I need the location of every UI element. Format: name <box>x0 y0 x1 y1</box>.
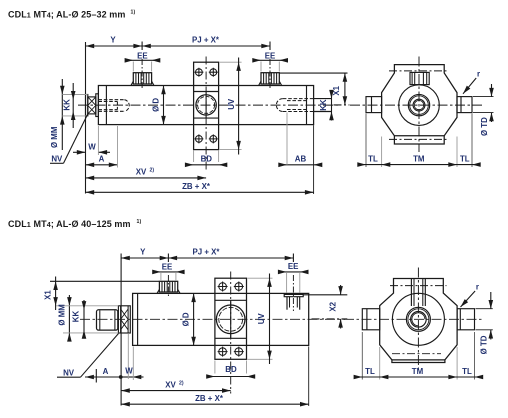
dimension EE (rod-side port) <box>125 52 161 72</box>
port 1 centerline (bottom) <box>167 275 169 298</box>
dimension EE (rear port) <box>252 52 288 72</box>
trunnion block MT4 (side view) <box>194 62 219 149</box>
svg-text:TM: TM <box>413 155 425 164</box>
svg-text:Ø MM: Ø MM <box>58 304 67 326</box>
cylinder centerline (side view top) <box>78 104 338 106</box>
dimension X1 (port top to centerline) <box>279 73 349 105</box>
svg-text:CDL1 MT4; AL-Ø 25–32 mm: CDL1 MT4; AL-Ø 25–32 mm <box>8 10 126 20</box>
dimension EE (bottom rear port) <box>278 262 309 293</box>
dimension KK (rear rod thread) <box>319 90 334 121</box>
end view horizontal centerline <box>350 104 482 106</box>
svg-text:ZB + X*: ZB + X* <box>182 182 211 191</box>
svg-text:EE: EE <box>288 262 299 271</box>
wrench flats NV (bottom, hatched) <box>118 306 130 333</box>
dimension O D (bottom) <box>181 293 196 345</box>
svg-text:XV: XV <box>165 380 176 389</box>
junction dot A/W <box>119 375 123 379</box>
trunnion pin right (bottom) <box>457 309 474 330</box>
svg-text:1): 1) <box>131 10 136 16</box>
port EE (rod side, bottom drawing) <box>157 281 180 293</box>
trunnion vertical centerline <box>205 57 207 172</box>
dimensions TL TM TL (bottom view) <box>354 332 484 380</box>
svg-text:1): 1) <box>137 219 142 225</box>
dimension KK (rod thread, left) <box>63 83 76 128</box>
svg-text:Ø D: Ø D <box>181 312 190 326</box>
tie rod centerlines (end view) <box>389 71 449 139</box>
port 2 centerline <box>269 59 271 89</box>
svg-text:Ø D: Ø D <box>152 98 161 112</box>
dimension BD (bottom) <box>206 361 255 379</box>
dimension ZB + X* (bottom) <box>121 347 309 407</box>
svg-text:Ø TD: Ø TD <box>479 335 488 354</box>
dimension X2 (bottom right) <box>303 285 347 329</box>
svg-text:ZB + X*: ZB + X* <box>195 394 224 403</box>
svg-text:A: A <box>103 367 109 376</box>
svg-text:r: r <box>477 70 480 79</box>
svg-text:TL: TL <box>365 367 375 376</box>
dimension O D (bore) <box>152 86 166 125</box>
piston rod head with thread KK (bottom) <box>97 310 118 330</box>
end view vertical centerline (bottom) <box>417 268 419 373</box>
svg-text:PJ + X*: PJ + X* <box>193 248 221 257</box>
svg-text:NV: NV <box>63 368 75 377</box>
bore circles (bottom end view) <box>392 293 444 345</box>
dimension BD <box>185 151 227 168</box>
label NV with leader <box>50 114 88 164</box>
port EE rear (bottom drawing, counterbore in cap) <box>284 293 303 309</box>
port EE (rod side), threaded boss <box>131 73 154 86</box>
dimension W (bottom) <box>121 334 144 380</box>
svg-text:TL: TL <box>460 155 470 164</box>
trunnion pin left (bottom) <box>362 309 379 330</box>
trunnion pin right <box>457 97 472 113</box>
port (bottom end view) <box>411 279 425 307</box>
bore circles (end view) <box>399 85 440 126</box>
cylinder centerline (side view bottom) <box>80 318 345 320</box>
rear rod stub (right end) <box>314 99 332 112</box>
svg-text:r: r <box>476 283 479 292</box>
svg-text:2): 2) <box>150 168 155 174</box>
label r with leader (bottom) <box>459 283 479 309</box>
cylinder body outline (bottom) <box>133 293 309 345</box>
dimension O MM (rod diameter) <box>50 79 87 150</box>
svg-text:UV: UV <box>257 313 266 325</box>
svg-text:KK: KK <box>72 311 81 323</box>
svg-text:BD: BD <box>201 154 213 163</box>
tie rod nuts (bottom, 4 crossed circles) <box>218 282 244 357</box>
trunnion vertical centerline (bottom) <box>230 272 232 394</box>
svg-text:EE: EE <box>137 52 148 61</box>
svg-text:Ø MM: Ø MM <box>50 126 59 148</box>
dimension PJ + X* <box>142 36 270 50</box>
dimensions TL TM TL (top view) <box>357 114 480 168</box>
dimension O TD (bottom) <box>476 292 494 354</box>
rod collar <box>96 94 99 117</box>
end view horizontal centerline (bottom) <box>344 318 483 320</box>
port EE (rear side), threaded boss <box>259 73 282 86</box>
dimension W <box>73 126 110 155</box>
main left extension line (bottom, flats face) <box>120 254 122 406</box>
dimension Y (bottom) <box>121 248 168 262</box>
svg-text:X2: X2 <box>329 301 338 311</box>
dimension O MM (bottom) <box>56 295 118 342</box>
svg-text:Y: Y <box>140 248 146 257</box>
rod-end cap joint line (bottom) <box>137 293 139 345</box>
svg-text:TL: TL <box>368 155 378 164</box>
svg-text:X1: X1 <box>44 290 53 300</box>
svg-text:EE: EE <box>162 263 173 272</box>
dimension O TD (pin diameter) <box>473 84 494 136</box>
trunnion body outline (bottom end view) <box>380 279 457 363</box>
wrench flats NV (hatched) <box>88 97 96 114</box>
svg-text:PJ + X*: PJ + X* <box>192 36 220 45</box>
label r with leader <box>461 70 480 96</box>
svg-text:BD: BD <box>225 365 237 374</box>
cylinder body outline <box>98 86 313 125</box>
trunnion body outline (octagon with plates) <box>382 65 457 144</box>
svg-text:CDL1 MT4; AL-Ø 40–125 mm: CDL1 MT4; AL-Ø 40–125 mm <box>8 219 131 229</box>
dimension KK (bottom) <box>72 300 87 339</box>
dimension PJ + X* (bottom) <box>168 248 293 262</box>
rod-end cap joint line <box>105 86 107 125</box>
dimension A (thread length) <box>86 126 118 168</box>
dimension ZB + X* <box>86 125 314 194</box>
svg-text:Ø TD: Ø TD <box>480 117 489 136</box>
svg-text:W: W <box>125 367 133 376</box>
svg-text:W: W <box>88 142 96 151</box>
svg-text:2): 2) <box>179 380 184 386</box>
trunnion pin circle (bottom) <box>216 305 245 334</box>
svg-text:Y: Y <box>110 36 116 45</box>
svg-text:NV: NV <box>51 155 63 164</box>
dimension UV (bottom) <box>248 274 273 365</box>
dimension XV 2) (bottom) <box>121 380 231 393</box>
piston rod end (left): end slice <box>86 95 88 116</box>
dimension EE (bottom rod-side port) <box>152 263 184 281</box>
dimension AB <box>278 113 322 168</box>
rear cap joint line <box>306 86 308 125</box>
title: CDL1 MT4; AL-D 40-125 mm 1) <box>8 219 141 229</box>
svg-text:TM: TM <box>412 367 424 376</box>
trunnion pin circle <box>196 95 216 115</box>
tie rod nuts (4 crossed circles) <box>194 68 217 144</box>
svg-text:KK: KK <box>319 99 328 111</box>
svg-text:UV: UV <box>227 98 236 110</box>
title: CDL1 MT4; AL-D 25-32 mm 1) <box>8 10 135 20</box>
trunnion pin left <box>366 97 382 113</box>
svg-text:KK: KK <box>63 99 72 111</box>
end view vertical centerline <box>418 57 420 153</box>
main left extension line (rod end face) <box>85 42 87 194</box>
dimension A (bottom) <box>85 367 121 383</box>
label NV with leader (bottom) <box>57 334 119 378</box>
trunnion block MT4 (bottom side view) <box>215 278 247 359</box>
port 2 centerline (bottom) <box>292 275 294 311</box>
dimension Y <box>86 36 143 50</box>
svg-text:TL: TL <box>462 367 472 376</box>
hidden rod thread bore (dashed) <box>98 100 129 112</box>
svg-text:XV: XV <box>136 168 147 177</box>
dimension XV 2) <box>86 168 207 181</box>
dimension X1 (bottom left) <box>44 277 160 311</box>
rear rod hidden portion (dashed) with dome end <box>276 99 313 112</box>
svg-text:AB: AB <box>295 154 307 163</box>
svg-text:EE: EE <box>265 52 276 61</box>
dimension UV (trunnion height) <box>220 58 242 155</box>
svg-text:A: A <box>99 154 105 163</box>
port 1 centerline <box>141 59 143 89</box>
port (end view, top) <box>410 72 429 84</box>
tie rod centerlines (bottom end view) <box>390 286 447 354</box>
